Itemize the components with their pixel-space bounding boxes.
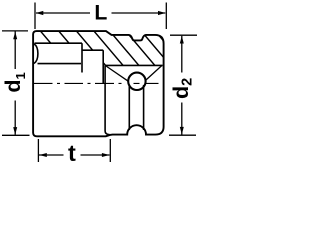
dimension d1: top extension tick bbox=[2, 30, 28, 32]
dimension t: right arrowhead bbox=[102, 153, 110, 157]
square drive hole top line bbox=[105, 64, 163, 66]
hex recess end wall bbox=[81, 43, 83, 72]
groove edge left (below ball) bbox=[128, 85, 130, 130]
hatching (cross-section of socket wall) bbox=[39, 29, 186, 67]
dimension d1: up arrowhead bbox=[13, 32, 17, 40]
relief bore back wall bbox=[102, 50, 104, 84]
dimension L: left arrowhead bbox=[36, 11, 44, 15]
groove edge right (below ball) bbox=[143, 85, 145, 130]
svg-text:t: t bbox=[68, 140, 76, 166]
svg-text:d2: d2 bbox=[169, 78, 196, 99]
drive hole right diagonal to ball bbox=[145, 65, 162, 80]
opening chamfer ellipse at hex face bbox=[34, 44, 38, 64]
dimension L: left extension line bbox=[34, 3, 36, 30]
dimension t: line right segment bbox=[81, 154, 110, 156]
svg-text:d1: d1 bbox=[1, 72, 28, 92]
centerline (axis, dash-dot) bbox=[33, 82, 159, 84]
dimension t: line left segment bbox=[39, 154, 64, 156]
dimension d2: top extension tick bbox=[170, 34, 197, 36]
dimension d1: line lower segment bbox=[14, 101, 16, 135]
dimension d1: line upper segment bbox=[14, 32, 16, 70]
relief bore top line bbox=[82, 49, 103, 51]
dimension t: right extension line bbox=[109, 139, 111, 162]
dimension d2: up arrowhead bbox=[180, 36, 184, 44]
hex bore flat line bbox=[35, 42, 83, 44]
socket body outline bbox=[33, 31, 164, 136]
dimension t: left extension line bbox=[37, 139, 39, 162]
drive hole back wall / shoulder line bbox=[105, 65, 109, 134]
dimension d1: bottom extension tick bbox=[2, 134, 30, 136]
dimension L: right arrowhead bbox=[158, 11, 166, 15]
dimension L: line left segment bbox=[36, 12, 90, 14]
dimension t: left arrowhead bbox=[39, 153, 47, 157]
svg-text:L: L bbox=[94, 1, 107, 24]
dimension L: line right segment bbox=[112, 12, 166, 14]
hex corner line bbox=[38, 63, 82, 65]
dimension d1: down arrowhead bbox=[13, 127, 17, 135]
dimension L: right extension line bbox=[165, 3, 167, 30]
dimension d2: bottom extension tick bbox=[169, 134, 196, 136]
drive hole left diagonal to ball bbox=[105, 65, 129, 81]
dimension d2: line lower segment bbox=[181, 103, 183, 135]
dimension d2: line upper segment bbox=[181, 36, 183, 73]
retaining ball bbox=[128, 73, 145, 90]
dimension d2: down arrowhead bbox=[180, 127, 184, 135]
